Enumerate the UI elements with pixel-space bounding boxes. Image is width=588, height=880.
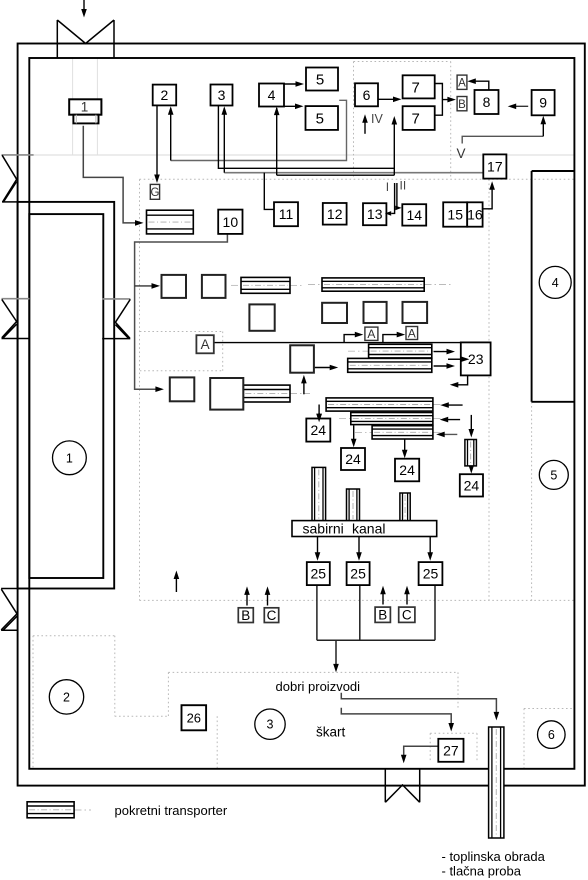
svg-text:kanal: kanal: [352, 521, 385, 537]
svg-text:3: 3: [218, 87, 226, 103]
svg-text:4: 4: [552, 276, 559, 290]
svg-text:2: 2: [63, 690, 70, 704]
svg-text:II: II: [400, 179, 407, 193]
svg-text:24: 24: [311, 422, 327, 438]
svg-text:16: 16: [467, 207, 483, 223]
svg-text:6: 6: [363, 87, 371, 103]
svg-text:V: V: [457, 146, 466, 161]
svg-text:23: 23: [468, 351, 484, 367]
svg-text:A: A: [201, 337, 210, 352]
svg-text:17: 17: [487, 159, 503, 175]
svg-text:6: 6: [548, 728, 555, 742]
svg-text:14: 14: [406, 207, 422, 223]
svg-text:B: B: [378, 608, 387, 623]
svg-text:26: 26: [187, 710, 201, 725]
svg-text:A: A: [367, 327, 375, 341]
svg-text:IV: IV: [371, 112, 383, 126]
svg-text:24: 24: [345, 451, 361, 467]
svg-text:7: 7: [411, 79, 419, 96]
svg-text:7: 7: [411, 110, 419, 127]
svg-text:C: C: [267, 608, 277, 623]
svg-text:G: G: [150, 187, 159, 199]
svg-text:B: B: [458, 99, 466, 111]
svg-text:25: 25: [350, 566, 366, 582]
svg-text:25: 25: [423, 566, 439, 582]
svg-text:A: A: [408, 326, 416, 340]
svg-text:4: 4: [268, 87, 276, 103]
svg-text:A: A: [458, 77, 466, 89]
svg-text:5: 5: [316, 71, 324, 88]
svg-text:- tlačna proba: - tlačna proba: [442, 864, 522, 879]
svg-text:27: 27: [443, 742, 459, 758]
svg-text:1: 1: [81, 100, 89, 115]
svg-text:12: 12: [327, 206, 343, 222]
svg-text:dobri proizvodi: dobri proizvodi: [276, 679, 361, 694]
svg-text:15: 15: [447, 207, 463, 223]
svg-text:24: 24: [399, 462, 415, 478]
svg-text:11: 11: [279, 206, 294, 222]
svg-text:pokretni transporter: pokretni transporter: [115, 803, 228, 818]
svg-text:3: 3: [267, 718, 274, 732]
svg-text:5: 5: [316, 110, 324, 127]
svg-text:25: 25: [311, 566, 327, 582]
svg-text:10: 10: [223, 214, 239, 230]
svg-text:9: 9: [539, 95, 547, 111]
svg-text:13: 13: [367, 206, 383, 222]
svg-text:1: 1: [66, 451, 73, 465]
svg-text:2: 2: [161, 87, 169, 103]
svg-text:C: C: [402, 608, 412, 623]
svg-text:- toplinska obrada: - toplinska obrada: [442, 849, 546, 864]
svg-text:8: 8: [483, 94, 491, 110]
svg-text:5: 5: [550, 468, 557, 482]
svg-text:škart: škart: [316, 725, 346, 740]
svg-text:sabirni: sabirni: [303, 521, 344, 537]
svg-text:B: B: [241, 608, 250, 623]
svg-text:24: 24: [464, 477, 480, 493]
svg-text:I: I: [386, 180, 389, 194]
